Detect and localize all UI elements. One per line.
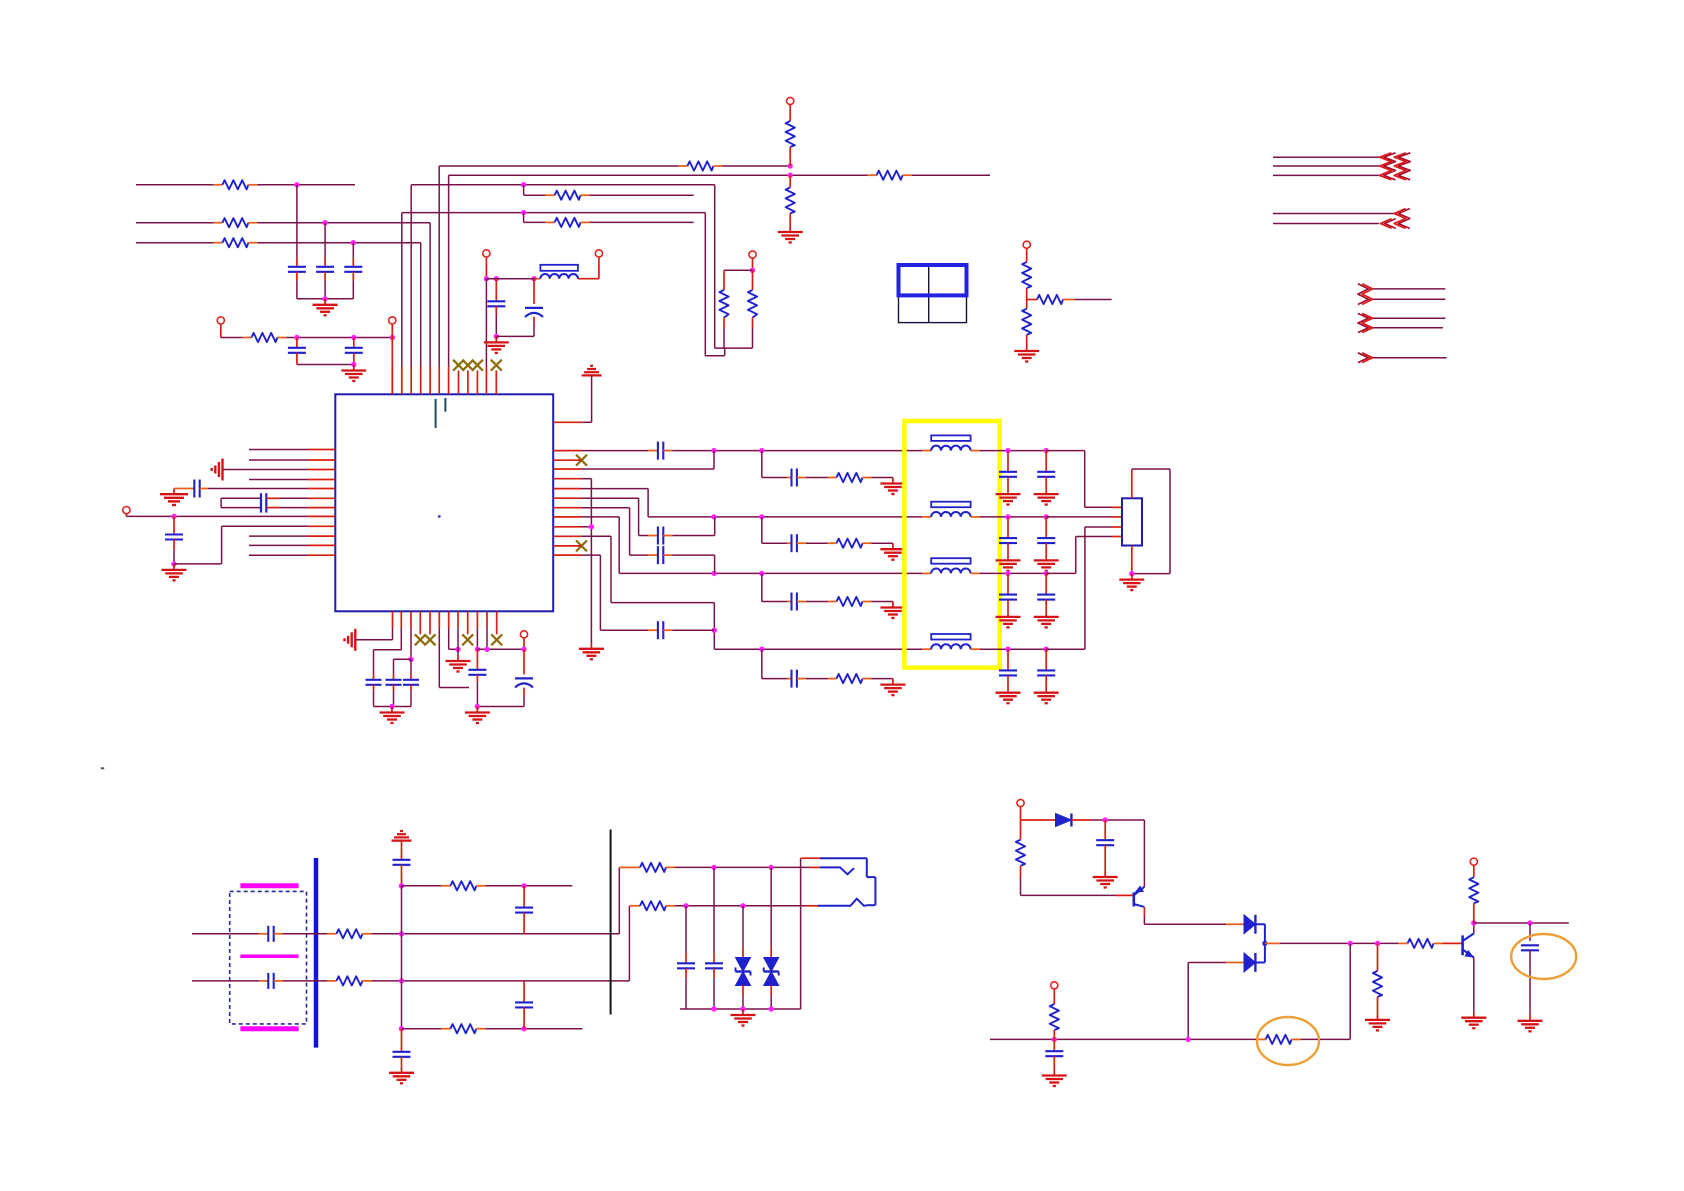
transformer core bar blue: [314, 858, 319, 1048]
terminal T4: [483, 250, 490, 257]
resistor R13 upper: [1022, 262, 1031, 288]
wire column mid: [401, 886, 403, 1029]
node ch4 mid: [712, 628, 717, 633]
table grid thin: [899, 265, 967, 323]
node C9 bottom: [171, 561, 176, 566]
wire C17/C18 rail: [477, 706, 524, 708]
node rail b: [389, 704, 394, 709]
bus entry chevrons bus1 col A: [1384, 153, 1396, 180]
ground G10 J1: [1131, 574, 1133, 580]
wire bus4 line1: [1369, 317, 1445, 319]
capacitor C29: [1053, 1039, 1055, 1051]
ground G2: [353, 365, 355, 371]
node FB1: [484, 276, 489, 281]
jack J2 top contact: [801, 857, 820, 859]
no-connect X right r2: [576, 455, 587, 466]
wire snubber ch1 mid: [806, 477, 828, 479]
wire bus2 line1: [1273, 213, 1397, 215]
wire J1 bottom: [1131, 546, 1133, 574]
capacitor C21: [401, 841, 403, 860]
wire ch3 to connector pin4: [1046, 572, 1076, 574]
black separator line: [610, 830, 612, 1015]
jack J2 ring contact: [806, 905, 818, 907]
node ch4 c2: [1044, 647, 1049, 652]
ground ch4 x1008: [996, 692, 1021, 694]
resistor Rs1 snubber: [828, 477, 837, 479]
wire cap bottom rail: [297, 298, 353, 300]
node b10: [475, 647, 480, 652]
no-connect X top pin t9: [462, 360, 473, 371]
ground Gs1 snubber: [892, 478, 894, 484]
wire C12 to ch3 node: [672, 554, 714, 556]
wire b1 to side ground: [392, 628, 394, 640]
wire audio R to R17: [283, 980, 327, 982]
resistor R24 base series: [1399, 942, 1408, 944]
capacitor C9: [173, 516, 175, 534]
wire L3 input: [136, 242, 213, 244]
node ch3 c1: [1005, 571, 1010, 576]
U1 right pins: [553, 421, 582, 423]
wire J1 top loop: [1131, 469, 1133, 498]
wire bus1 line2: [1273, 165, 1379, 167]
wire tap2 stub: [523, 213, 525, 223]
bus entry chevron bus2 line2: [1385, 219, 1396, 229]
transformer winding bar mid: [240, 955, 298, 959]
wire b10 down: [476, 628, 478, 649]
wire audio L rise: [618, 867, 620, 933]
wire C11 to ch2 node: [672, 535, 714, 537]
resistor R20 row A: [631, 866, 640, 868]
wire bottom to out1: [1301, 1038, 1351, 1040]
ground G23: [1053, 1070, 1055, 1076]
ground ch1 x1008: [996, 493, 1021, 495]
wire C9 node to p9: [174, 563, 222, 565]
wire T2 node to IC pin t1: [391, 338, 393, 395]
resistor R21 row B: [631, 905, 640, 907]
wire ch3 after inductor: [980, 572, 1047, 574]
node diode out: [1262, 941, 1267, 946]
wire ch1 from r1: [582, 450, 649, 452]
wire r3 riser to ch1: [582, 468, 715, 470]
node J1 gnd: [1129, 571, 1134, 576]
no-connect X top pin t10: [472, 360, 483, 371]
wire bus3 line1: [1369, 288, 1445, 290]
wire L2 input: [136, 222, 213, 224]
capacitor C18 polarized: [523, 649, 525, 674]
ground G22: [1473, 1012, 1475, 1018]
terminal T3: [123, 507, 130, 514]
resistor R23 to ground: [1377, 943, 1379, 971]
resistor R14 series to right: [1027, 299, 1037, 301]
capacitor C11 r6 series: [648, 535, 658, 537]
ground G9 trunk: [590, 643, 592, 649]
node rail junction: [322, 296, 327, 301]
wire T5 down: [789, 105, 791, 121]
wire snubber ch4 end: [872, 678, 893, 680]
wire Q2 collector: [1473, 923, 1475, 934]
resistor R18: [441, 885, 450, 887]
node D4: [351, 362, 356, 367]
ground G7: [173, 564, 175, 570]
ground Gs4 snubber: [892, 679, 894, 685]
capacitor C26 (rowA): [713, 867, 715, 953]
wire Y1 to p6: [266, 497, 280, 499]
node tap1: [521, 182, 526, 187]
wire jog: [724, 348, 726, 356]
terminal T11: [1470, 858, 1477, 865]
ground G16 inverted top: [400, 830, 403, 832]
wire b3 to C15: [394, 658, 412, 660]
ground ch3 x1046: [1034, 616, 1059, 618]
table top row thick blue: [899, 265, 967, 295]
ferrite bead FB coil: [540, 274, 578, 279]
U1 interior mark 1: [435, 399, 437, 428]
wire snubber ch2 drop: [761, 517, 763, 543]
ground ch1 x1046: [1034, 493, 1059, 495]
wire D2/D3 cathodes link: [1255, 923, 1265, 925]
resistor R3: [213, 242, 222, 244]
node ch4 b: [759, 647, 764, 652]
capacitor C8 on p5: [174, 488, 194, 490]
node branch1 cap: [521, 883, 526, 888]
ground G15: [476, 707, 478, 713]
resistor R1: [213, 184, 222, 186]
wire r9 to trunk: [582, 526, 592, 528]
node ch1 a: [711, 448, 716, 453]
capacitor Cs4 snubber: [787, 678, 792, 680]
node b7/b8: [455, 647, 460, 652]
wire collector out: [1474, 922, 1569, 924]
terminal T2: [389, 317, 396, 324]
ground Gs2 snubber: [892, 543, 894, 549]
ground G11: [1026, 345, 1028, 351]
node ch2 b: [759, 514, 764, 519]
node bottom T10: [1052, 1037, 1057, 1042]
wire A to node: [722, 165, 790, 167]
node ch1 b: [759, 448, 764, 453]
wire r6 jog: [582, 497, 639, 499]
capacitor C15: [393, 674, 395, 680]
wire L2 to IC pin T5 bend: [257, 222, 430, 224]
transformer winding bar top: [240, 883, 298, 888]
wire A horizontal: [439, 165, 678, 167]
resistor R15 lower: [1026, 300, 1028, 309]
wire T6 down: [752, 258, 754, 270]
wire b2 to C14: [400, 628, 402, 650]
wire stub p1: [249, 449, 308, 451]
node ch2 c1: [1005, 514, 1010, 519]
terminal T9: [520, 631, 527, 638]
wire R14 tail: [1075, 299, 1112, 301]
wire L1 input: [136, 184, 213, 186]
node T3 wire / C9: [171, 514, 176, 519]
wire R22 to base: [1020, 877, 1022, 895]
terminal T6: [749, 251, 756, 258]
capacitor C3: [352, 243, 354, 258]
node ch3 a: [712, 571, 717, 576]
capacitor ch3 shunt x1008: [1007, 573, 1009, 594]
TVS diode D4 (rowB): [742, 906, 744, 948]
wire stub p12: [249, 554, 308, 556]
capacitor C4: [296, 338, 298, 348]
capacitor C14: [373, 674, 375, 680]
no-connect X b9: [462, 634, 473, 645]
wire B tail: [912, 174, 990, 176]
node L1/C1 junction: [294, 182, 299, 187]
wire Y1 to p7: [266, 507, 280, 509]
ground G4: [495, 336, 497, 342]
node trunk r9: [589, 524, 594, 529]
ground G6 under C8 left: [173, 489, 175, 495]
resistor R27 feedback: [1257, 1038, 1266, 1040]
node rail c: [475, 704, 480, 709]
node tap2: [521, 210, 526, 215]
wire T8 down: [1026, 249, 1028, 263]
terminal T7: [595, 250, 602, 257]
bus entry chevrons bus3: [1358, 284, 1369, 305]
node C6/C7 bottom: [494, 334, 499, 339]
resistor R22 base bias: [1020, 820, 1022, 840]
yellow highlight box: [904, 421, 999, 668]
node b3: [408, 657, 413, 662]
node out2: [1375, 941, 1380, 946]
capacitor Cs2 snubber: [787, 542, 792, 544]
bus entry chevrons bus1 col B: [1398, 153, 1410, 180]
node rowB tvs1: [740, 903, 745, 908]
wire bottom net: [990, 1038, 1257, 1040]
inductor L4 shield: [931, 634, 970, 640]
jack J2 sleeve column: [800, 858, 802, 1009]
wire b3 down: [410, 628, 412, 659]
terminal T10: [1051, 982, 1058, 989]
node rail1: [711, 1006, 716, 1011]
U1 interior mark 2: [444, 398, 446, 412]
resistor R12 right: [752, 270, 754, 290]
U1 top pins: [391, 367, 393, 395]
resistor Rs3 snubber: [828, 601, 837, 603]
node ch2 c2: [1044, 514, 1049, 519]
wire B horizontal: [449, 174, 868, 176]
node rail2: [740, 1006, 745, 1011]
node audio L col: [399, 931, 404, 936]
capacitor ch3 shunt x1046: [1045, 573, 1047, 594]
terminal T8: [1023, 241, 1030, 248]
wire snubber ch3 drop: [761, 573, 763, 601]
ground G14: [457, 655, 459, 661]
wire branch1 tail: [485, 885, 572, 887]
node D2: [351, 335, 356, 340]
transformer winding bar bottom: [240, 1026, 298, 1031]
ground G17: [401, 1067, 403, 1073]
capacitor C10 ch1 series: [648, 450, 658, 452]
wire bus1 line3: [1273, 174, 1379, 176]
wire 3 horizontal: [411, 184, 715, 186]
inductor L3 coil: [922, 572, 931, 574]
node b11: [484, 647, 489, 652]
ground G21: [1529, 1015, 1531, 1021]
capacitor C12 r7 series: [648, 554, 658, 556]
wire ch3 from r8: [582, 516, 620, 518]
resistor R11 left: [723, 270, 725, 290]
node rail3: [769, 1006, 774, 1011]
capacitor C24 bottom: [401, 1029, 403, 1052]
wire r12 jog: [582, 554, 601, 556]
node wire A / divider: [788, 163, 793, 168]
capacitor C7 polarized: [533, 279, 535, 304]
resistor R4: [242, 337, 251, 339]
node L2/C2 junction: [322, 220, 327, 225]
wire audio L input: [192, 933, 259, 935]
node cap out: [1527, 920, 1532, 925]
inductor L2 coil: [922, 516, 931, 518]
ground G3: [789, 226, 791, 232]
wire to ferrite bead: [486, 278, 535, 280]
wire R bottoms bar: [715, 347, 753, 349]
U1 bottom pins: [392, 611, 394, 628]
capacitor C28 out: [1529, 923, 1531, 941]
wire p3: [223, 469, 308, 471]
node rowA capF: [711, 865, 716, 870]
capacitor Cs3 snubber: [787, 601, 792, 603]
capacitor C22: [523, 886, 525, 908]
resistor R10 tap2: [546, 221, 555, 223]
wire R4 to T2 column: [286, 337, 392, 339]
wire Q2 emitter: [1473, 958, 1475, 1012]
ground G13: [391, 707, 393, 713]
capacitor C27: [1104, 820, 1106, 840]
wire ch1 to connector pin1: [1046, 450, 1085, 452]
wire resistor pair top bar: [724, 269, 753, 271]
node rowA tvs2: [769, 865, 774, 870]
diode D1: [1021, 819, 1056, 821]
wire 4 horizontal: [402, 212, 706, 214]
wire branch2 tail: [485, 1028, 582, 1030]
U1 left pins: [308, 449, 336, 451]
wire snubber ch3 end: [872, 601, 893, 603]
resistor R17: [327, 980, 336, 982]
wire D1 to emitter column: [1092, 819, 1144, 821]
wire audio L to R16: [283, 933, 327, 935]
wire row A: [675, 866, 810, 868]
terminal T5 top: [787, 97, 794, 104]
capacitor C2: [324, 223, 326, 258]
wire emitter column: [1143, 820, 1145, 887]
inductor L4 coil: [922, 648, 931, 650]
TVS diode D5 (rowA): [770, 867, 772, 947]
wire ch1 after inductor: [980, 450, 1047, 452]
no-connect X right r11: [576, 540, 587, 551]
wire snubber ch4 mid: [806, 678, 828, 680]
capacitor C17: [476, 649, 478, 670]
ground Gs3 snubber: [892, 602, 894, 608]
node branch2: [399, 1026, 404, 1031]
wire ch4 line: [714, 648, 922, 650]
diode D2: [1226, 923, 1244, 925]
wire branch1: [402, 885, 442, 887]
wire bus5 single: [1369, 357, 1446, 359]
ferrite bead shield: [540, 265, 578, 271]
wire T3 to p8: [125, 514, 127, 517]
ground G19: [1104, 871, 1106, 877]
wire L3 to IC pin T4 bend: [257, 242, 420, 244]
wire ch1 after cap: [672, 450, 922, 452]
resistor R2: [213, 222, 222, 224]
node L3/C3 junction: [351, 240, 356, 245]
wire diode out to R24: [1265, 942, 1280, 944]
capacitor C16: [410, 659, 412, 674]
transformer dashed box: [230, 891, 307, 1024]
wire T4 down: [485, 257, 487, 279]
wire b7 join: [448, 628, 450, 649]
resistor R19: [441, 1028, 450, 1030]
node D3 under T2: [390, 335, 395, 340]
bus entry chevrons bus4: [1358, 313, 1369, 332]
terminal T12: [1017, 799, 1024, 806]
stray mark: [101, 767, 104, 769]
capacitor ch1 shunt x1008: [1007, 451, 1009, 472]
wire T9 down: [523, 638, 525, 649]
wire r7 jog: [582, 507, 630, 509]
resistor Rs2 snubber: [828, 542, 837, 544]
transistor Q2 NPN: [1461, 935, 1464, 955]
node D1: [294, 335, 299, 340]
node FB2: [494, 276, 499, 281]
resistor Rs4 snubber: [828, 678, 837, 680]
node branch1: [399, 883, 404, 888]
wire T1 down: [220, 324, 222, 337]
wire T2 down: [391, 324, 393, 337]
U1 interior dot: [438, 515, 441, 518]
ground ch3 x1008: [996, 616, 1021, 618]
node ch4 c1: [1005, 647, 1010, 652]
inductor L1 shield: [931, 435, 970, 441]
capacitor Cs1 snubber: [787, 477, 792, 479]
node bottom D3: [1186, 1037, 1191, 1042]
wire b11 down: [486, 628, 488, 649]
crystal Y1 body: [220, 498, 222, 507]
node Q2 collector: [1471, 920, 1476, 925]
jack J2 tip contact: [810, 866, 820, 868]
transistor Q1 PNP: [1116, 894, 1134, 896]
wire trunk r4 to ground: [582, 478, 592, 480]
resistor R8 pull-down: [789, 175, 791, 187]
wire ch2 to connector pin2: [1046, 516, 1112, 518]
wire audio R after R17: [371, 980, 629, 982]
node D1 cathode: [1103, 817, 1108, 822]
node out1: [1348, 941, 1353, 946]
wire audio L after R16: [371, 933, 619, 935]
capacitor C6: [495, 279, 497, 302]
node T6: [750, 268, 755, 273]
wire b6 stub: [438, 628, 440, 688]
wire node to IC pin t11: [485, 279, 487, 367]
no-connect X b5: [425, 634, 436, 645]
wire audio R input: [192, 980, 259, 982]
resistor R6 pull-up: [786, 121, 795, 147]
ground G8 inverted: [590, 365, 593, 367]
capacitor ch2 shunt x1008: [1007, 517, 1009, 538]
highlight ellipse E1: [1257, 1017, 1319, 1065]
wire bus2 line2: [1273, 223, 1379, 225]
wire tap2 tail: [590, 221, 694, 223]
connector J1 body: [1122, 498, 1142, 545]
diode D3: [1226, 962, 1244, 964]
node ch1 c2: [1044, 448, 1049, 453]
node ch3 b: [759, 571, 764, 576]
jack J2 tab: [867, 876, 876, 878]
wire ch4 to connector pin3: [1046, 648, 1085, 650]
capacitor ch2 shunt x1046: [1045, 517, 1047, 538]
